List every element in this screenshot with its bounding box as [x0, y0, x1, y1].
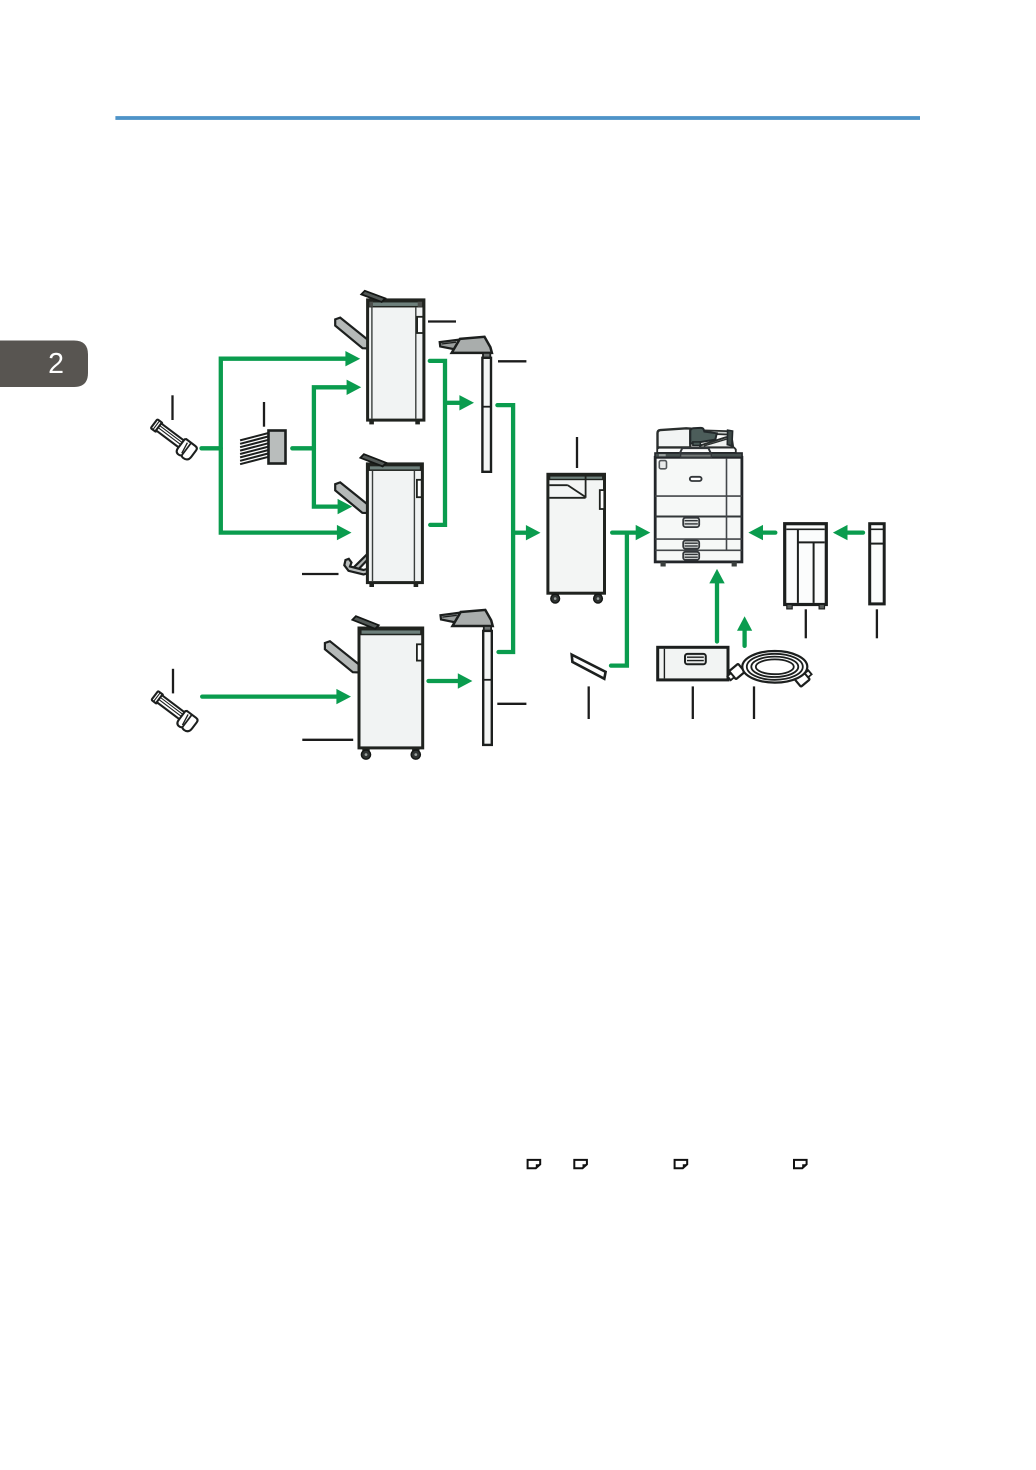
label line finisher A — [428, 320, 456, 322]
arrowhead trunk1 into finisher A — [345, 351, 360, 366]
wire link from punch unit — [292, 446, 314, 450]
arrowhead LCT into machine — [748, 525, 763, 540]
wire from staple unit 2 to finisher C — [202, 694, 337, 698]
wire branch into bridge unit 1 — [445, 401, 461, 405]
wire branch into folding unit — [513, 531, 527, 535]
label line tray wedge — [588, 686, 590, 719]
label line staple unit 1 — [171, 395, 173, 420]
label line finisher B — [302, 573, 339, 575]
punch unit body — [269, 431, 286, 464]
arrowhead trunk1 into finisher B — [337, 525, 352, 540]
wire from side unit to LCT — [847, 530, 863, 534]
wire link from staple unit 1 — [202, 446, 221, 450]
label line cable — [753, 686, 755, 719]
finisher B (middle, booklet) — [335, 454, 422, 587]
wire elbow bridge unit 1/2 to folding unit — [497, 405, 513, 652]
arrowhead paper feed unit up into machine — [709, 569, 724, 584]
punch unit comb — [240, 433, 268, 464]
side unit (tall thin) — [870, 524, 885, 604]
cable connector left — [726, 664, 745, 683]
arrowhead side unit into LCT — [833, 525, 848, 540]
main machine scanner and ADF — [655, 428, 742, 458]
wire up from paper feed unit — [715, 583, 719, 642]
paper feed unit — [658, 647, 728, 680]
wire trunk 1 with branches to finisher A and finisher B — [221, 359, 346, 533]
label line folding unit — [576, 437, 578, 468]
wire elbow finisher A/B to bridge unit 1 — [430, 361, 445, 525]
chapter tab 2 — [0, 341, 88, 388]
arrowhead trunk2 into finisher A — [347, 380, 362, 395]
cable coil — [742, 651, 807, 683]
page reference icon 1 — [528, 1160, 541, 1168]
tray wedge — [572, 655, 606, 679]
arrowhead into folding unit — [526, 525, 541, 540]
arrowhead cable up into machine — [737, 616, 752, 631]
arrowhead into bridge unit 1 — [459, 395, 474, 410]
bridge unit 2 (bottom) — [441, 610, 493, 745]
label line LCT — [805, 609, 807, 638]
cable connector right — [794, 668, 813, 687]
wire from LCT to machine — [762, 530, 775, 534]
arrowhead into finisher C — [336, 689, 351, 704]
arrowhead folding unit into machine — [636, 525, 651, 540]
svg-text:2: 2 — [48, 348, 64, 380]
label line bridge unit 2 — [497, 703, 526, 705]
label line side unit — [876, 609, 878, 638]
bridge unit 1 (top) — [440, 337, 492, 472]
arrowhead trunk2 into finisher B — [338, 499, 353, 514]
label line paper feed unit — [692, 686, 694, 719]
folding unit (middle cabinet) — [548, 474, 605, 603]
wire trunk from tray wedge up to machine arrow — [611, 533, 627, 666]
wire up from cable — [742, 629, 746, 646]
label line staple unit 2 — [172, 669, 174, 694]
label line punch unit — [263, 402, 265, 427]
staple unit 1 (top) — [148, 418, 198, 461]
main machine body — [655, 457, 742, 566]
page reference icon 3 — [675, 1160, 688, 1168]
arrowhead into bridge unit 2 — [458, 673, 473, 688]
finisher A (top) — [335, 291, 424, 425]
header rule — [115, 116, 920, 120]
LCT cabinet — [785, 524, 827, 609]
label line finisher C — [302, 739, 353, 741]
label line bridge unit 1 — [498, 360, 526, 362]
wire from finisher C to bridge unit 2 — [429, 679, 459, 683]
staple unit 2 (bottom) — [149, 690, 199, 733]
finisher C (bottom) — [325, 616, 423, 759]
wire from folding unit to main machine — [612, 530, 637, 534]
page reference icon 2 — [574, 1160, 587, 1168]
wire trunk 2 with branches to finisher A and finisher B — [314, 387, 347, 506]
page reference icon 4 — [794, 1160, 807, 1168]
